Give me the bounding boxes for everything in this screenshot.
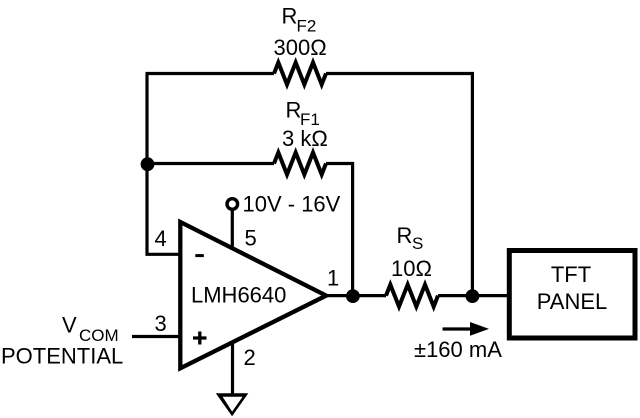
svg-text:4: 4 bbox=[155, 226, 167, 251]
TFT panel box bbox=[509, 251, 635, 339]
svg-text:POTENTIAL: POTENTIAL bbox=[1, 344, 123, 369]
wire left vertical from top feedback to pin 4 bbox=[147, 74, 182, 255]
svg-text:V: V bbox=[62, 313, 77, 338]
plus symbol non-inverting input bbox=[193, 332, 207, 345]
resistor R_S zigzag bbox=[386, 285, 438, 307]
wire RF1 right and down to output node bbox=[326, 164, 353, 297]
wire RS to TFT panel bbox=[438, 294, 509, 297]
svg-text:LMH6640: LMH6640 bbox=[191, 283, 286, 308]
supply terminal circle bbox=[227, 199, 238, 210]
svg-text:3 kΩ: 3 kΩ bbox=[282, 126, 328, 151]
svg-text:S: S bbox=[412, 234, 423, 253]
svg-text:TFT: TFT bbox=[551, 262, 591, 287]
svg-text:10Ω: 10Ω bbox=[391, 256, 432, 281]
svg-text:R: R bbox=[286, 98, 302, 123]
svg-text:±160 mA: ±160 mA bbox=[414, 337, 502, 362]
svg-text:2: 2 bbox=[244, 345, 256, 370]
junction node panel side bbox=[466, 289, 480, 303]
svg-text:1: 1 bbox=[327, 266, 339, 291]
svg-text:F2: F2 bbox=[297, 17, 317, 36]
svg-text:COM: COM bbox=[79, 326, 119, 345]
svg-text:5: 5 bbox=[245, 226, 257, 251]
svg-text:R: R bbox=[282, 4, 298, 29]
wire supply stub to pin 5 bbox=[231, 208, 234, 250]
resistor R_F1 zigzag bbox=[274, 153, 326, 175]
wire RF2 top run right and down to output node bbox=[326, 74, 472, 297]
wire ground stub pin 2 bbox=[231, 340, 234, 395]
current arrow bbox=[443, 327, 472, 330]
svg-text:PANEL: PANEL bbox=[537, 289, 608, 314]
svg-text:R: R bbox=[397, 223, 413, 248]
minus symbol inverting input bbox=[195, 254, 204, 257]
wire V_COM input to pin 3 bbox=[132, 335, 182, 338]
ground symbol triangle bbox=[216, 393, 249, 416]
wire op-amp output to RS bbox=[326, 294, 386, 297]
svg-text:3: 3 bbox=[155, 311, 167, 336]
resistor R_F2 zigzag bbox=[274, 63, 326, 85]
svg-text:300Ω: 300Ω bbox=[274, 35, 327, 60]
wire RF1 run left bbox=[147, 162, 274, 165]
op-amp U1 LMH6640 triangle bbox=[180, 222, 326, 368]
junction node inverting input bbox=[141, 157, 155, 171]
svg-text:10V - 16V: 10V - 16V bbox=[243, 192, 341, 217]
wire RF2 top run left bbox=[146, 72, 275, 75]
junction node output pin1 bbox=[346, 289, 360, 303]
